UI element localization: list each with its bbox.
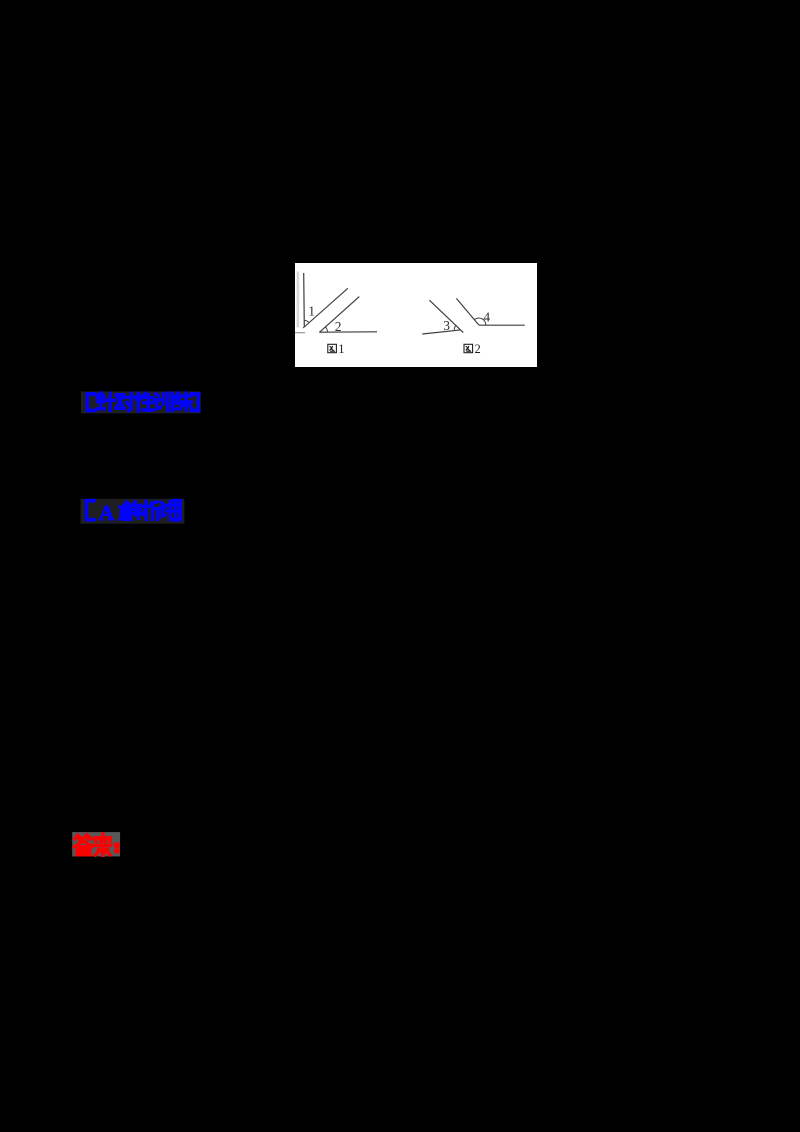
heading-1 blue text 针对性训练 in brackets (drawn)	[87, 393, 198, 411]
char xi	[143, 501, 159, 519]
figure panel (white image box)	[295, 263, 537, 367]
char da	[74, 835, 92, 855]
bracket right	[173, 501, 180, 520]
svg-text:2: 2	[335, 319, 342, 334]
fig2 angle-3 upper ray	[429, 300, 463, 332]
answer highlight grey box	[72, 832, 120, 856]
heading-2 blue text AI解析 in brackets (drawn + latin)	[87, 501, 95, 520]
char jiang	[161, 502, 180, 520]
fig2 angle-3 arc	[454, 326, 456, 331]
bracket left	[87, 394, 94, 411]
svg-text:1: 1	[308, 303, 315, 318]
svg-text:A: A	[99, 501, 115, 525]
fig1 angle-1 diagonal ray	[303, 288, 348, 328]
fig1 vertical ray	[303, 273, 306, 327]
fig1 faint grey stripe	[297, 272, 300, 328]
caption 图1 glyph	[328, 344, 337, 352]
fig2 angle-4 upper ray	[456, 298, 478, 325]
fig2 angle-3 lower ray	[422, 330, 460, 334]
fig1 angle-2 diagonal ray	[319, 297, 359, 333]
fig1 angle-2 horizontal ray	[319, 331, 377, 334]
caption 图2 glyph	[464, 344, 473, 352]
bracket right	[192, 394, 199, 411]
answer red text 答案: (drawn)	[74, 834, 119, 855]
heading-2 shading box	[81, 499, 185, 524]
bracket left	[87, 501, 95, 520]
fig1 angle-1 arc	[304, 320, 309, 322]
heading-1 shading box	[81, 391, 201, 413]
char dui	[116, 393, 134, 410]
svg-text:3: 3	[443, 318, 450, 333]
svg-text:1: 1	[338, 342, 344, 356]
char jie	[124, 502, 141, 520]
fig1 baseline shadow	[295, 332, 305, 334]
colon	[115, 843, 120, 853]
char lian	[174, 393, 191, 410]
svg-text:2: 2	[475, 342, 481, 356]
svg-text:4: 4	[483, 309, 490, 324]
fig1 angle-2 arc	[326, 327, 328, 332]
char xing	[136, 393, 154, 411]
char an	[94, 834, 111, 855]
char zhen	[96, 393, 114, 411]
fig2 angle-4 horizontal ray	[479, 324, 525, 326]
fig2 angle-4 arc	[474, 318, 486, 325]
char xun	[155, 393, 173, 411]
